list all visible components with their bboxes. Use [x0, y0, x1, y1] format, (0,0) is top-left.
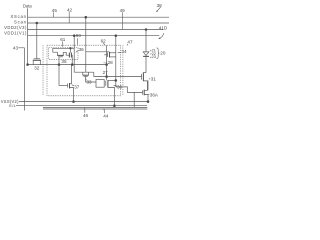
- wire VSS(V2) line: [19, 101, 148, 103]
- transistor 37 gate bar: [67, 84, 69, 88]
- svg-text:E/L: E/L: [9, 103, 16, 108]
- leader 38 arrow: [157, 7, 161, 12]
- transistor 34 channel bar: [109, 52, 111, 58]
- EL element 20 triangle: [143, 52, 149, 56]
- svg-text:37: 37: [74, 84, 80, 89]
- svg-text:46: 46: [83, 113, 89, 118]
- wire VDD1 feed vertical x=74.2: [73, 36, 75, 72]
- transistor 35 right leg: [62, 52, 64, 55]
- capacitor 36 box: [96, 80, 104, 88]
- transistor 31 bottom stub: [143, 81, 148, 90]
- leader 36 cap: [76, 50, 79, 52]
- svg-text:36: 36: [117, 85, 123, 90]
- leader 37: [72, 85, 74, 86]
- node VDD2 junction for EL: [145, 29, 147, 31]
- svg-text:41D: 41D: [159, 26, 168, 31]
- leader 21: [150, 49, 152, 52]
- svg-text:Scan: Scan: [14, 20, 27, 25]
- leader 33: [85, 78, 88, 80]
- svg-text:31: 31: [151, 76, 157, 81]
- transistor 36A gate bar: [141, 90, 143, 94]
- node cluster to E/L line: [113, 105, 115, 107]
- wire EL anode vertical: [145, 30, 147, 52]
- svg-text:38: 38: [157, 3, 163, 8]
- transistor 35 channel bar: [57, 54, 64, 56]
- transistor 32 drain leg: [39, 60, 41, 64]
- leader 47: [127, 44, 128, 46]
- transistor 36A bottom stub: [144, 95, 148, 102]
- dashed line right of box 60: [122, 45, 124, 96]
- svg-text:34: 34: [121, 49, 127, 54]
- transistor 37 top stub: [70, 65, 72, 84]
- wire node line down to transistor 37 gate: [58, 65, 60, 86]
- leader 42: [68, 12, 70, 23]
- svg-text:43: 43: [13, 46, 19, 51]
- wire vertical down to control line 44: [133, 92, 135, 107]
- node Data junction on sampling row: [27, 64, 29, 66]
- leader 45: [52, 12, 54, 17]
- wire cluster top stub to VDD vertical: [108, 79, 116, 81]
- EL element cathode bar: [143, 55, 149, 57]
- transistor 31 top stub: [143, 72, 146, 74]
- leader 61: [61, 41, 63, 46]
- wire x115.8 bottom to gate feed of 36A: [116, 87, 143, 93]
- node gate-Scan junction: [36, 22, 38, 24]
- transistor 34 top stub: [110, 52, 116, 54]
- wire 62 vertical from dashed edge down to transistor 33: [85, 17, 87, 72]
- leader lines: [18, 7, 163, 114]
- svg-text:60: 60: [76, 33, 82, 38]
- leader 23: [150, 56, 151, 59]
- transistor cluster gate bar: [105, 81, 107, 86]
- leader 44: [103, 109, 105, 113]
- svg-text:62: 62: [101, 38, 107, 43]
- svg-text:VDD1(V1): VDD1(V1): [4, 30, 27, 35]
- svg-text:Data: Data: [23, 4, 33, 9]
- svg-text:33: 33: [87, 79, 93, 84]
- node transistor 37 source to VSS: [73, 101, 75, 103]
- leader 27: [105, 74, 108, 76]
- wire data line 43 vertical: [24, 48, 26, 111]
- svg-text:23: 23: [152, 54, 156, 59]
- leader 28 dashed: [104, 62, 108, 64]
- capacitor 36 right plate: [70, 53, 72, 58]
- svg-text:44: 44: [103, 113, 109, 118]
- wire gate row to transistor 31: [94, 76, 142, 78]
- transistor 35 gate bar: [58, 56, 63, 58]
- svg-text:32: 32: [34, 66, 40, 71]
- wire XScan bus line: [27, 16, 169, 18]
- wire VDD2(V3) bus line to terminal 41D: [27, 29, 163, 31]
- wire EL cathode down to transistor 31: [145, 56, 147, 72]
- wire E/L line: [16, 105, 147, 107]
- transistor 33 gate bar: [84, 76, 88, 78]
- transistor cluster channel bar: [107, 80, 109, 87]
- transistor 37 bottom stub: [70, 88, 74, 102]
- leader 36A: [148, 93, 149, 95]
- transistor 32 channel bar: [33, 59, 41, 61]
- wire transistor 37 gate lead: [59, 85, 68, 87]
- transistor 34 bottom stub: [110, 56, 116, 58]
- svg-text:XScan: XScan: [10, 14, 26, 19]
- wire transistor 33 gate lead: [86, 77, 96, 82]
- wire gate lead of transistor 32 to Scan: [36, 23, 38, 59]
- dashed boxes: [43, 45, 123, 96]
- transistor 34 gate bar: [107, 53, 109, 58]
- node junction at x=59: [58, 64, 60, 66]
- wire Scan bus line: [27, 22, 169, 24]
- transistor 31 gate bar: [141, 74, 143, 80]
- leader 60: [76, 38, 78, 44]
- node VDD1 junction feeding drive circuit: [73, 35, 75, 37]
- node cluster top junction: [115, 79, 117, 81]
- svg-text:28: 28: [108, 60, 114, 65]
- wire cluster bottom stub: [108, 87, 115, 105]
- wire VDD1(V1) bus line: [27, 35, 159, 37]
- leader 31: [149, 78, 151, 80]
- brace 20: [157, 48, 160, 59]
- svg-text:42: 42: [67, 8, 73, 13]
- node junction at x=72.2: [71, 64, 73, 66]
- svg-text:47: 47: [127, 40, 133, 45]
- transistor 32 gate bar: [34, 58, 41, 60]
- svg-text:36: 36: [79, 47, 85, 52]
- wire control line 44: [43, 108, 147, 110]
- capacitor 36 left plate: [68, 53, 70, 58]
- wire capacitor right lead: [70, 55, 73, 64]
- leader 34: [118, 51, 122, 54]
- svg-text:36A: 36A: [150, 92, 159, 97]
- transistor 31 channel bar: [142, 72, 144, 81]
- leader 22: [150, 53, 151, 56]
- transistor 33 left leg: [82, 72, 84, 75]
- wire sampling row y=64.6: [28, 64, 107, 66]
- transistor 35 left leg: [57, 52, 59, 55]
- wire transistor 35 right leg hook to capacitor: [63, 52, 69, 55]
- label group 21 22 23: [152, 48, 156, 59]
- box 61 inner dashed: [49, 47, 78, 59]
- wire VDD1 feed vertical x=115.8: [115, 36, 117, 87]
- node 44 arrowhead: [104, 109, 105, 110]
- wire transistor 35 gate lead down: [58, 57, 60, 65]
- leader 41D arrow: [159, 33, 164, 38]
- transistor 33 channel bar: [83, 74, 89, 76]
- leader 46: [84, 108, 86, 113]
- transistor 36A channel bar: [143, 90, 145, 96]
- svg-text:35: 35: [61, 59, 67, 64]
- wire from node to transistor 34 drain: [86, 51, 110, 53]
- svg-text:45: 45: [52, 8, 58, 13]
- wire Data line vertical: [27, 8, 29, 64]
- leader 43: [18, 47, 24, 49]
- svg-text:61: 61: [60, 37, 66, 42]
- wire vertical 62/28 line into box: [106, 45, 108, 80]
- svg-text:20: 20: [160, 51, 166, 56]
- svg-text:27: 27: [103, 70, 109, 75]
- transistor 34 gate lead: [104, 54, 107, 56]
- box 60 outer dashed: [47, 45, 121, 96]
- svg-text:49: 49: [120, 8, 126, 13]
- svg-text:VDD2(V3): VDD2(V3): [4, 25, 27, 30]
- node 27 junction: [106, 76, 108, 78]
- transistor 37 channel bar: [69, 83, 71, 89]
- wire control line 46: [43, 106, 147, 108]
- leader 62: [103, 43, 104, 45]
- node junction at x=106.6: [106, 64, 108, 66]
- wire VDD to transistor 33 drain row: [74, 71, 94, 73]
- node 36A source to VSS: [147, 101, 149, 103]
- transistor 32 source leg: [32, 60, 34, 64]
- wire top feed inside box y=48.3: [53, 48, 74, 52]
- transistor 33 right leg: [88, 72, 90, 75]
- wire step down to node 27: [93, 72, 95, 76]
- leader 36 cluster: [114, 85, 118, 86]
- transistor 36A top stub: [144, 81, 147, 90]
- node VDD1 junction feeding transistor 34: [115, 35, 117, 37]
- wire capacitor top feed: [69, 48, 71, 52]
- node small junction at 70.4,48.3: [70, 48, 72, 50]
- leader 49: [121, 12, 123, 29]
